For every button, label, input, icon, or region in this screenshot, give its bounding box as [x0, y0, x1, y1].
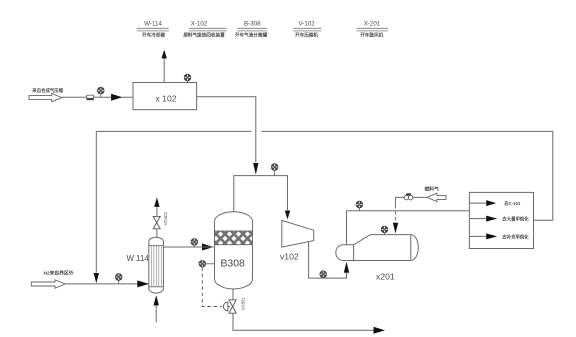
svg-text:去C-101: 去C-101 — [504, 200, 521, 207]
svg-text:开车冷却器: 开车冷却器 — [142, 32, 165, 39]
svg-text:v102: v102 — [280, 252, 299, 262]
vessel W114 — [127, 237, 164, 293]
vessel B308 — [215, 212, 253, 289]
legend entry B-308 — [235, 21, 268, 39]
svg-text:开车气液分离罐: 开车气液分离罐 — [235, 32, 268, 39]
instrument on x201 — [381, 226, 388, 235]
signal line dashed to valve — [202, 268, 222, 307]
flow arrow into x102 — [111, 94, 122, 101]
arrow up into W114 bottom — [154, 295, 159, 305]
valve VD101 — [153, 211, 168, 228]
instrument FI1 — [98, 87, 105, 97]
wire valve to vent arrow — [156, 206, 158, 216]
arrow into x201 top — [393, 223, 398, 234]
feed arrow into W114 — [137, 280, 149, 287]
vessel X102 — [133, 83, 197, 110]
inline silencer symbol — [87, 95, 94, 100]
legend entry X-201 — [357, 21, 388, 39]
svg-text:原料气废热回收装置: 原料气废热回收装置 — [183, 32, 225, 39]
legend entry X-102 — [183, 21, 226, 39]
instrument LC on B308 — [199, 261, 215, 268]
svg-text:W-114: W-114 — [144, 21, 162, 28]
svg-text:X-201: X-201 — [364, 21, 381, 28]
blower x201 — [336, 235, 419, 282]
svg-text:去大量甲烷化: 去大量甲烷化 — [502, 216, 529, 223]
vent arrow up — [154, 197, 159, 207]
arrow up into x201 — [344, 262, 349, 273]
wire v102 outlet to x201 — [309, 242, 347, 279]
wire recycle left segment — [96, 131, 251, 272]
feed arrow into B308 — [202, 244, 214, 251]
svg-text:X-102: X-102 — [191, 21, 208, 28]
control valve VA301 — [223, 297, 245, 313]
wire x201 to header box — [347, 210, 470, 212]
svg-text:B308: B308 — [221, 259, 245, 270]
svg-text:燃料气: 燃料气 — [425, 186, 440, 193]
wire fuel gas line — [396, 197, 427, 205]
inlet block arrow syngas — [29, 87, 64, 102]
inlet block arrow N2 — [31, 270, 74, 289]
legend entry V-102 — [293, 21, 321, 39]
instrument on overhead line — [271, 164, 278, 176]
wire recycle from box to N2 line — [262, 131, 553, 220]
svg-text:去补充甲烷化: 去补充甲烷化 — [502, 233, 529, 240]
arrow down into overhead line — [253, 163, 258, 175]
svg-text:开车鼓风机: 开车鼓风机 — [360, 32, 383, 39]
svg-text:VA301: VA301 — [241, 297, 246, 310]
instrument on N2 line — [115, 274, 122, 284]
wire N2 feed to W114 — [65, 283, 149, 285]
dashed drop of fuel line — [395, 205, 397, 222]
arrow down into N2 line — [94, 273, 99, 283]
svg-text:V-102: V-102 — [299, 21, 316, 28]
fuel gas block arrow — [425, 186, 447, 202]
instrument on W114 outlet — [191, 239, 198, 247]
destination box — [469, 192, 533, 248]
wire W114 outlet to B308 — [164, 246, 214, 248]
wire B308 bottom to valve — [232, 289, 234, 300]
wire x201 discharge up — [346, 211, 348, 245]
wire syngas feed to x102 — [62, 96, 133, 98]
wire overhead line B308 to v102 — [234, 176, 288, 212]
svg-text:W 114: W 114 — [127, 254, 150, 263]
legend entry W-114 — [137, 21, 169, 39]
instrument on v102 outlet — [320, 271, 327, 278]
wire valve to bottom outlet — [233, 313, 374, 330]
arrow down into v102 — [285, 211, 290, 220]
vent arrow up — [162, 50, 167, 59]
svg-text:B-308: B-308 — [244, 21, 261, 28]
wire W114 bottom feed — [155, 305, 157, 322]
x102 vent line — [163, 58, 165, 83]
node to bulk methanation — [469, 216, 529, 223]
svg-text:x201: x201 — [376, 272, 395, 282]
node to C-101 — [469, 200, 521, 207]
instrument on x102 — [184, 74, 191, 82]
inline valve on fuel line — [404, 193, 413, 200]
node to supplementary methanation — [469, 233, 529, 240]
bottom outlet arrow — [374, 327, 386, 334]
wire W114 vent — [156, 229, 158, 238]
wire x102 outlet right and down — [197, 97, 256, 163]
svg-text:N2来自界区外: N2来自界区外 — [44, 270, 74, 277]
svg-text:x 102: x 102 — [156, 94, 177, 104]
svg-text:来自合成气压缩: 来自合成气压缩 — [31, 87, 63, 94]
compressor v102 — [280, 220, 314, 261]
svg-text:开车压缩机: 开车压缩机 — [295, 32, 318, 39]
svg-text:VD101: VD101 — [163, 211, 168, 225]
instrument on discharge line — [356, 201, 363, 211]
